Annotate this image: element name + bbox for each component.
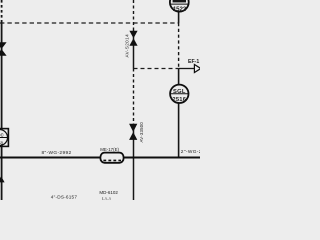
EF-1 outgoing arrow: [179, 59, 201, 73]
svg-text:(-1-1: (-1-1: [102, 196, 112, 200]
silencer ME-17(E): [100, 153, 123, 163]
wire: right vertical dashed: [178, 23, 180, 69]
wire: left vertical dashed (top): [1, 0, 3, 23]
wire: horizontal dashed header line y=23: [0, 22, 179, 24]
svg-text:AV-S2014: AV-S2014: [124, 34, 129, 58]
svg-text:2516: 2516: [172, 97, 186, 103]
svg-text:2"-WG-29: 2"-WG-29: [181, 149, 200, 155]
svg-text:4"-DS-6157: 4"-DS-6157: [51, 194, 78, 199]
wire: horizontal dashed branch y=68.5: [134, 68, 179, 70]
valve AV-S2014: [129, 31, 137, 46]
svg-text:EF-1: EF-1: [188, 59, 199, 65]
pipe: main horizontal line y=157.5: [0, 157, 200, 159]
svg-text:8"-WG-2992: 8"-WG-2992: [42, 150, 72, 156]
wire: center vertical dashed (top) x=133.5: [133, 0, 135, 31]
svg-text:1523: 1523: [173, 6, 187, 13]
svg-text:AV-33500: AV-33500: [139, 122, 144, 143]
svg-text:51: 51: [0, 140, 4, 146]
instrument circle mid (SGL 2516): [170, 85, 188, 103]
check valve AV-33500: [129, 124, 137, 140]
wire: center vertical solid to bottom: [133, 124, 135, 201]
valve on left edge line: [0, 42, 7, 55]
wire: right vertical stem from top circle: [178, 11, 180, 23]
wire: right vertical solid to mid circle: [178, 69, 180, 86]
wire: center vertical dashed (mid): [133, 69, 135, 124]
svg-text:MD-6102: MD-6102: [99, 190, 118, 195]
wire: right vertical solid below mid circle to pipe: [178, 103, 180, 158]
svg-text:ME-17(E): ME-17(E): [100, 147, 119, 152]
instrument box at left edge: [0, 129, 8, 147]
instrument circle top (1523): [170, 0, 189, 13]
wire: center vertical solid through valve to branch: [133, 31, 135, 69]
flow arrow on left line: [0, 176, 5, 182]
svg-text:SGL: SGL: [173, 89, 186, 95]
wire: left vertical solid main: [1, 23, 3, 200]
